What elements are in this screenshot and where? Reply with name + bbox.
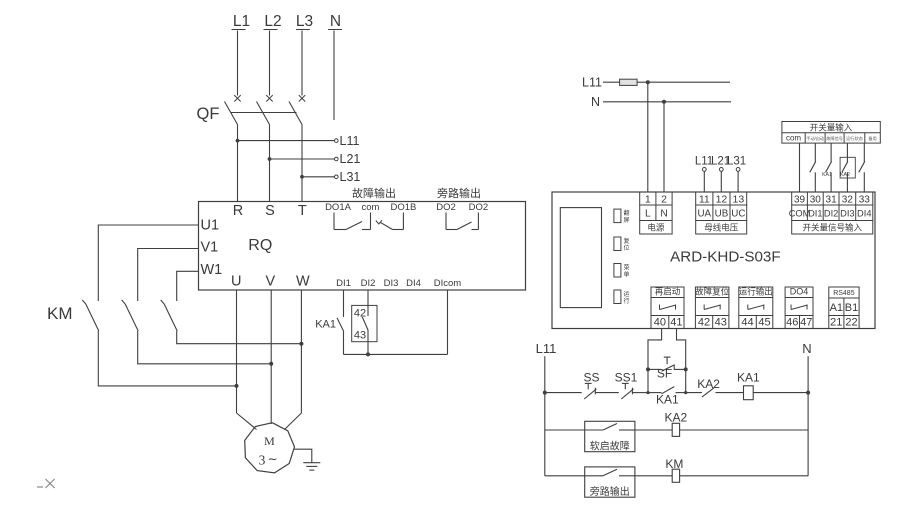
svg-text:RQ: RQ bbox=[248, 237, 272, 254]
svg-text:42: 42 bbox=[698, 316, 710, 328]
svg-text:故障信号: 故障信号 bbox=[826, 135, 843, 142]
svg-text:W: W bbox=[296, 273, 310, 289]
svg-text:DO2: DO2 bbox=[436, 202, 456, 213]
svg-text:∼: ∼ bbox=[267, 452, 277, 466]
svg-text:SS: SS bbox=[583, 371, 599, 385]
svg-text:V: V bbox=[265, 273, 275, 289]
svg-text:30: 30 bbox=[810, 194, 822, 205]
svg-text:运: 运 bbox=[623, 290, 629, 298]
svg-text:故障输出: 故障输出 bbox=[352, 186, 396, 200]
svg-text:ARD-KHD-S03F: ARD-KHD-S03F bbox=[670, 249, 781, 266]
svg-text:运行输出: 运行输出 bbox=[739, 287, 773, 297]
svg-text:1: 1 bbox=[645, 193, 651, 205]
svg-text:KA2: KA2 bbox=[697, 377, 720, 391]
svg-text:2: 2 bbox=[661, 193, 667, 205]
svg-text:单: 单 bbox=[623, 270, 629, 278]
svg-text:13: 13 bbox=[733, 193, 745, 205]
svg-text:32: 32 bbox=[842, 194, 854, 205]
svg-text:W1: W1 bbox=[201, 262, 223, 278]
svg-text:N: N bbox=[802, 341, 811, 356]
svg-text:RS485: RS485 bbox=[833, 290, 855, 297]
svg-text:12: 12 bbox=[716, 193, 728, 205]
svg-text:复: 复 bbox=[623, 237, 629, 245]
svg-text:V1: V1 bbox=[201, 240, 219, 256]
svg-text:开关量信号输入: 开关量信号输入 bbox=[802, 223, 862, 233]
svg-text:SF: SF bbox=[657, 367, 672, 381]
svg-text:N: N bbox=[660, 208, 667, 219]
svg-text:11: 11 bbox=[699, 193, 710, 205]
svg-text:L21: L21 bbox=[340, 152, 361, 166]
svg-text:N: N bbox=[591, 95, 600, 109]
svg-text:39: 39 bbox=[794, 194, 806, 205]
svg-text:DI1: DI1 bbox=[808, 208, 822, 218]
svg-text:再启动: 再启动 bbox=[655, 287, 681, 297]
svg-text:开关量输入: 开关量输入 bbox=[810, 122, 853, 132]
svg-text:L31: L31 bbox=[340, 170, 361, 184]
svg-text:菜: 菜 bbox=[623, 264, 629, 272]
svg-text:41: 41 bbox=[670, 316, 682, 328]
svg-text:L31: L31 bbox=[727, 156, 746, 168]
svg-text:DI4: DI4 bbox=[857, 208, 871, 218]
svg-text:DO4: DO4 bbox=[790, 287, 809, 297]
svg-text:N: N bbox=[330, 13, 341, 30]
svg-text:47: 47 bbox=[800, 316, 812, 328]
svg-text:L: L bbox=[645, 208, 651, 219]
svg-text:KA2: KA2 bbox=[840, 172, 850, 178]
svg-text:DO1A: DO1A bbox=[325, 202, 352, 213]
svg-text:L11: L11 bbox=[536, 341, 557, 356]
svg-text:com: com bbox=[362, 202, 380, 213]
svg-text:L3: L3 bbox=[296, 13, 313, 30]
svg-text:40: 40 bbox=[654, 316, 666, 328]
svg-text:翻: 翻 bbox=[623, 209, 629, 217]
svg-text:UA: UA bbox=[697, 208, 711, 219]
svg-text:屏: 屏 bbox=[623, 217, 629, 224]
svg-text:com: com bbox=[786, 134, 801, 143]
svg-text:KA1: KA1 bbox=[737, 371, 760, 385]
svg-text:DI2: DI2 bbox=[361, 278, 376, 289]
svg-text:3: 3 bbox=[259, 453, 266, 468]
svg-text:故障复位: 故障复位 bbox=[695, 287, 730, 297]
svg-text:T: T bbox=[298, 203, 307, 219]
svg-text:UB: UB bbox=[715, 208, 729, 219]
svg-text:DO2: DO2 bbox=[469, 202, 489, 213]
svg-text:DIcom: DIcom bbox=[434, 278, 462, 289]
svg-text:45: 45 bbox=[758, 316, 770, 328]
svg-text:46: 46 bbox=[786, 316, 798, 328]
svg-text:DI1: DI1 bbox=[336, 278, 351, 289]
svg-text:位: 位 bbox=[623, 244, 629, 252]
svg-text:22: 22 bbox=[845, 316, 857, 328]
svg-text:旁路输出: 旁路输出 bbox=[590, 485, 630, 498]
svg-text:DO1B: DO1B bbox=[390, 202, 416, 213]
svg-text:手动/自动: 手动/自动 bbox=[806, 135, 824, 142]
svg-text:L2: L2 bbox=[264, 13, 281, 30]
svg-text:43: 43 bbox=[715, 316, 727, 328]
svg-text:L11: L11 bbox=[582, 76, 602, 90]
svg-text:SS1: SS1 bbox=[615, 371, 638, 385]
svg-text:KA1: KA1 bbox=[656, 393, 679, 407]
svg-text:DI2: DI2 bbox=[824, 208, 838, 218]
svg-text:U: U bbox=[231, 273, 241, 289]
svg-text:母线电压: 母线电压 bbox=[704, 223, 739, 233]
svg-text:KM: KM bbox=[47, 304, 73, 323]
svg-text:运行状态: 运行状态 bbox=[846, 135, 863, 142]
svg-text:UC: UC bbox=[731, 208, 745, 219]
svg-text:42: 42 bbox=[354, 308, 366, 320]
svg-text:旁路输出: 旁路输出 bbox=[437, 186, 481, 200]
svg-text:L11: L11 bbox=[340, 134, 360, 148]
svg-text:KA1: KA1 bbox=[822, 172, 832, 178]
svg-text:DI3: DI3 bbox=[384, 278, 399, 289]
svg-text:A1: A1 bbox=[830, 302, 843, 314]
svg-text:KA2: KA2 bbox=[665, 411, 688, 425]
svg-text:44: 44 bbox=[741, 316, 753, 328]
svg-text:KA1: KA1 bbox=[315, 319, 336, 331]
svg-text:QF: QF bbox=[197, 105, 220, 123]
svg-text:备用: 备用 bbox=[868, 135, 876, 142]
svg-text:U1: U1 bbox=[201, 218, 220, 234]
svg-text:DI3: DI3 bbox=[840, 208, 854, 218]
svg-text:M: M bbox=[264, 434, 275, 448]
svg-text:电源: 电源 bbox=[647, 223, 665, 233]
svg-text:21: 21 bbox=[830, 316, 842, 328]
svg-text:行: 行 bbox=[623, 297, 629, 305]
svg-text:43: 43 bbox=[354, 330, 366, 342]
svg-text:软启故障: 软启故障 bbox=[590, 439, 630, 452]
svg-text:S: S bbox=[265, 203, 275, 219]
svg-text:31: 31 bbox=[826, 194, 838, 205]
svg-text:DI4: DI4 bbox=[406, 278, 421, 289]
svg-text:R: R bbox=[233, 203, 243, 219]
svg-text:L1: L1 bbox=[233, 13, 250, 30]
svg-text:33: 33 bbox=[859, 194, 871, 205]
svg-text:B1: B1 bbox=[845, 302, 858, 314]
